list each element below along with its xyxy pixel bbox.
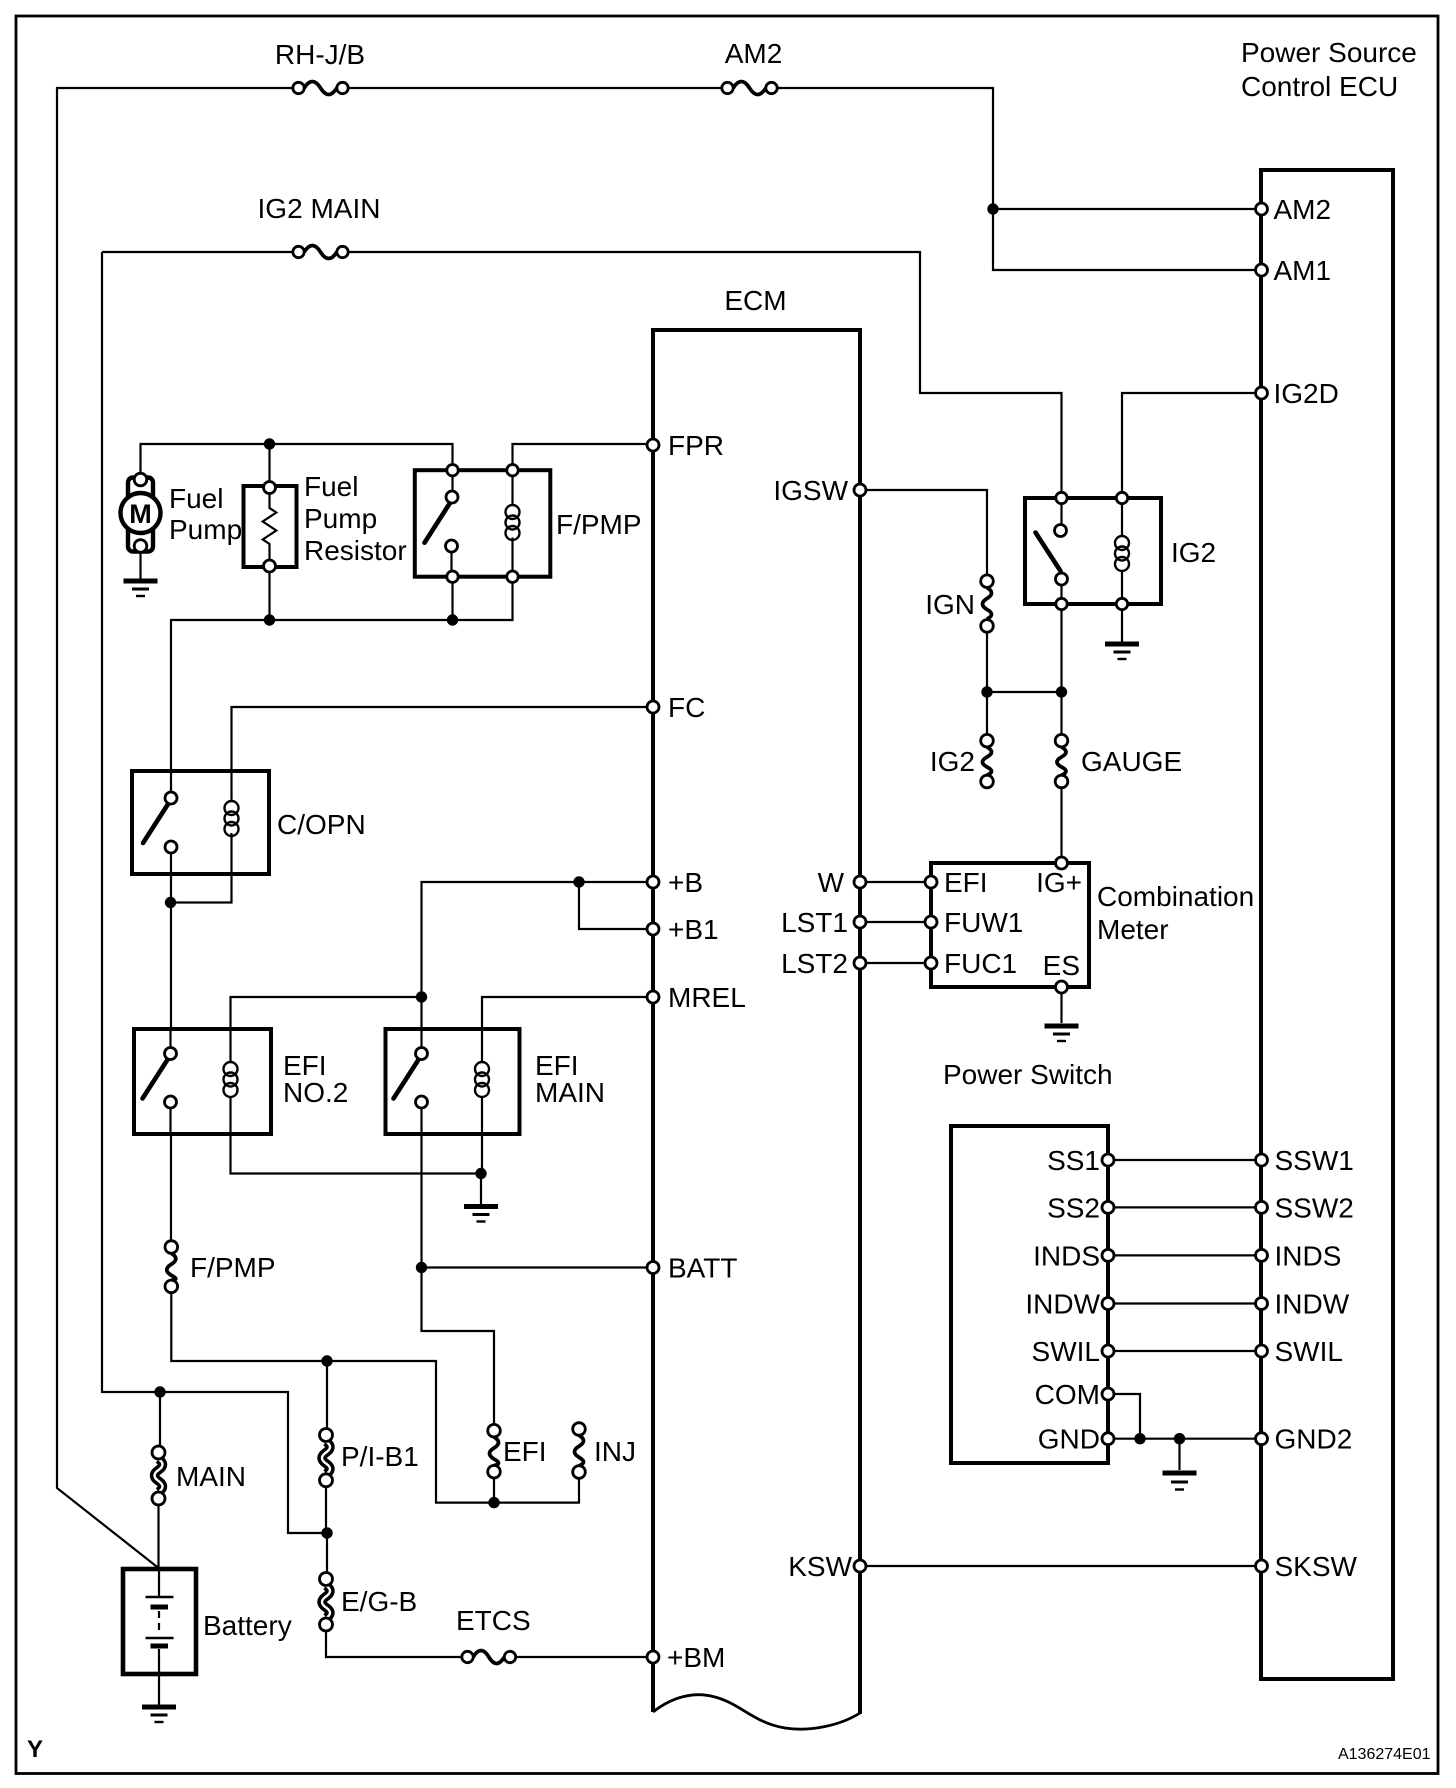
svg-text:INDW: INDW bbox=[1275, 1289, 1350, 1320]
svg-text:SWIL: SWIL bbox=[1275, 1336, 1343, 1367]
svg-text:AM2: AM2 bbox=[725, 38, 783, 69]
wire: relay coil returns to ground bbox=[231, 1134, 483, 1204]
svg-text:M: M bbox=[129, 499, 152, 529]
junction: resistor bottom bbox=[264, 614, 275, 625]
svg-text:IGN: IGN bbox=[925, 589, 975, 620]
fuse IG2 bbox=[981, 734, 994, 787]
svg-text:LST2: LST2 bbox=[781, 948, 848, 979]
ground (fuel pump) bbox=[124, 581, 158, 596]
wire: ETCS to +BM pin bbox=[517, 1656, 648, 1658]
pin SWIL (ECU) bbox=[1256, 1336, 1343, 1367]
svg-text:MREL: MREL bbox=[668, 982, 746, 1013]
relay C/OPN bbox=[132, 771, 269, 874]
pin KSW (ECM) bbox=[788, 1551, 866, 1582]
fuel pump motor M bbox=[121, 473, 161, 552]
svg-text:IGSW: IGSW bbox=[773, 475, 848, 506]
svg-text:NO.2: NO.2 bbox=[283, 1077, 348, 1108]
power source control ECU box bbox=[1261, 170, 1393, 1679]
svg-text:SSW1: SSW1 bbox=[1275, 1145, 1354, 1176]
svg-text:F/PMP: F/PMP bbox=[190, 1252, 276, 1283]
svg-text:Meter: Meter bbox=[1097, 914, 1169, 945]
junction: fuel pump resistor tap (top) bbox=[264, 438, 275, 449]
wire: MREL pin to EFI MAIN coil bbox=[482, 997, 647, 1062]
svg-text:SKSW: SKSW bbox=[1275, 1551, 1358, 1582]
pin IG+ (meter) bbox=[1036, 857, 1082, 898]
pin INDW (ECU) bbox=[1256, 1289, 1350, 1320]
junction: EFI fuse bottom bbox=[488, 1497, 499, 1508]
label EFI NO.2 bbox=[283, 1050, 348, 1108]
pin COM (power switch) bbox=[1035, 1379, 1114, 1410]
svg-text:EFI: EFI bbox=[944, 867, 988, 898]
junction: power switch ground tap bbox=[1174, 1433, 1185, 1444]
pin FUC1 (meter) bbox=[925, 948, 1017, 979]
pin IGSW (ECM) bbox=[773, 475, 866, 506]
wire: FC pin to C/OPN coil bbox=[232, 707, 648, 771]
wire: battery positive feed (left riser and top run to RH-J/B fuse) bbox=[57, 88, 292, 1568]
ground (EFI relays) bbox=[464, 1207, 498, 1222]
pin GND (power switch) bbox=[1038, 1424, 1114, 1455]
fuse INJ bbox=[573, 1423, 586, 1479]
svg-text:SS2: SS2 bbox=[1047, 1192, 1100, 1223]
svg-text:FUW1: FUW1 bbox=[944, 907, 1023, 938]
pin SWIL (power switch) bbox=[1032, 1336, 1114, 1367]
wire GND-GND2 bbox=[1114, 1438, 1256, 1440]
svg-text:COM: COM bbox=[1035, 1379, 1100, 1410]
svg-text:SS1: SS1 bbox=[1047, 1145, 1100, 1176]
svg-text:RH-J/B: RH-J/B bbox=[275, 39, 365, 70]
svg-text:IG2 MAIN: IG2 MAIN bbox=[258, 193, 381, 224]
wire: +B1 branch bbox=[579, 882, 647, 929]
svg-text:E/G-B: E/G-B bbox=[341, 1586, 417, 1617]
svg-text:Resistor: Resistor bbox=[304, 535, 407, 566]
junction: below C/OPN bbox=[165, 897, 176, 908]
svg-text:+BM: +BM bbox=[667, 1642, 725, 1673]
power switch box bbox=[951, 1126, 1108, 1463]
junction: relay switch bottom bbox=[447, 614, 458, 625]
wire: +B feed bbox=[422, 882, 648, 1048]
svg-text:INDW: INDW bbox=[1025, 1289, 1100, 1320]
svg-text:AM1: AM1 bbox=[1274, 255, 1332, 286]
wire: KSW to SKSW bbox=[866, 1565, 1256, 1567]
svg-text:Pump: Pump bbox=[304, 503, 377, 534]
svg-text:INDS: INDS bbox=[1275, 1240, 1342, 1271]
wire INDS-INDS bbox=[1114, 1254, 1256, 1256]
junction: GAUGE node bbox=[1056, 686, 1067, 697]
svg-text:FC: FC bbox=[668, 692, 705, 723]
wire: IGN fuse to junction bus bbox=[987, 610, 1062, 735]
relay IG2 bbox=[1025, 492, 1161, 609]
junction: P/I-B1 tap bbox=[321, 1355, 332, 1366]
pin SSW1 (ECU) bbox=[1256, 1145, 1354, 1176]
pin INDW (power switch) bbox=[1025, 1289, 1114, 1320]
wire: IG2 MAIN fuse feed bbox=[102, 251, 292, 253]
pin EFI (meter) bbox=[925, 867, 988, 898]
junction: BATT tap bbox=[416, 1262, 427, 1273]
pin +BM (ECM) bbox=[647, 1642, 725, 1673]
junction: coil ground node bbox=[475, 1168, 486, 1179]
svg-text:Y: Y bbox=[27, 1736, 43, 1763]
pin IG2D (ECU) bbox=[1256, 378, 1339, 409]
svg-text:EFI: EFI bbox=[503, 1436, 547, 1467]
pin FPR (ECM) bbox=[647, 430, 724, 461]
svg-text:A136274E01: A136274E01 bbox=[1338, 1746, 1431, 1763]
wire: AM2 fuse to AM2/AM1 pins of power source control ECU bbox=[777, 88, 1256, 270]
wire: W to EFI pin bbox=[866, 881, 925, 883]
pin LST1 (ECM) bbox=[781, 907, 866, 938]
wire: MAIN fusible link top lead bbox=[159, 1392, 161, 1569]
svg-text:GND2: GND2 bbox=[1275, 1424, 1353, 1455]
svg-text:FPR: FPR bbox=[668, 430, 724, 461]
wire: IG2 MAIN left leg down to P/I-B1 node bbox=[102, 252, 327, 1533]
junction: IGN node bbox=[981, 686, 992, 697]
junction: MAIN fusible link tap bbox=[154, 1386, 165, 1397]
ground (battery) bbox=[142, 1707, 176, 1722]
pin FUW1 (meter) bbox=[925, 907, 1023, 938]
pin SKSW (ECU) bbox=[1256, 1551, 1358, 1582]
wire: P/I-B1 to E/G-B bbox=[326, 1487, 327, 1573]
svg-text:GAUGE: GAUGE bbox=[1081, 746, 1182, 777]
relay EFI NO.2 bbox=[134, 1029, 271, 1134]
junction: EFI relays feed bbox=[416, 991, 427, 1002]
wire INDW-INDW bbox=[1114, 1302, 1256, 1304]
svg-text:Power Switch: Power Switch bbox=[943, 1059, 1113, 1090]
fuse AM2 bbox=[722, 82, 777, 95]
wire: ES to ground bbox=[1060, 993, 1062, 1023]
relay F/PMP bbox=[415, 465, 551, 583]
wire: P/I-B1 top lead bbox=[326, 1361, 328, 1429]
wire: fuel pump top rail to F/PMP relay switch bbox=[141, 444, 453, 473]
wire: EFI fuse bottom lead bbox=[493, 1478, 495, 1503]
wire: IG2 relay coil to ground bbox=[1121, 610, 1123, 642]
svg-text:Pump: Pump bbox=[169, 514, 242, 545]
wire COM jumper bbox=[1114, 1394, 1140, 1439]
wire: IG2 MAIN fuse to IG2 relay switch bbox=[349, 252, 1062, 492]
svg-text:GND: GND bbox=[1038, 1424, 1100, 1455]
svg-text:Power Source: Power Source bbox=[1241, 37, 1417, 68]
wire: LST1 to FUW1 pin bbox=[866, 921, 925, 923]
pin INDS (power switch) bbox=[1033, 1240, 1114, 1271]
fuse RH-J/B bbox=[293, 82, 348, 95]
wire SS1-SSW1 bbox=[1114, 1159, 1256, 1161]
pin SSW2 (ECU) bbox=[1256, 1192, 1354, 1223]
pin +B (ECM) bbox=[647, 867, 703, 898]
svg-text:INJ: INJ bbox=[594, 1436, 636, 1467]
junction: AM2 branch bbox=[987, 203, 998, 214]
pin SS2 (power switch) bbox=[1047, 1192, 1114, 1223]
pin FC (ECM) bbox=[647, 692, 705, 723]
pin ES (meter) bbox=[1043, 950, 1080, 993]
svg-text:BATT: BATT bbox=[668, 1253, 737, 1284]
label EFI MAIN bbox=[535, 1050, 605, 1108]
svg-text:W: W bbox=[818, 867, 845, 898]
svg-text:F/PMP: F/PMP bbox=[556, 509, 642, 540]
svg-text:SSW2: SSW2 bbox=[1275, 1192, 1354, 1223]
wire: F/PMP fuse to EFI/INJ fuse bus bbox=[171, 1293, 579, 1503]
pin MREL (ECM) bbox=[647, 982, 746, 1013]
wire: resistor bottom lead bbox=[268, 572, 270, 620]
fusible link E/G-B bbox=[320, 1573, 333, 1632]
svg-text:Fuel: Fuel bbox=[169, 483, 223, 514]
combination meter box bbox=[931, 863, 1089, 987]
wire: IGSW pin to IGN fuse bbox=[866, 490, 987, 575]
svg-text:ETCS: ETCS bbox=[456, 1605, 531, 1636]
label Combination Meter bbox=[1097, 881, 1254, 945]
pin SS1 (power switch) bbox=[1047, 1145, 1114, 1176]
svg-text:IG2: IG2 bbox=[1171, 537, 1216, 568]
wire: power switch ground lead bbox=[1178, 1439, 1180, 1470]
svg-text:KSW: KSW bbox=[788, 1551, 852, 1582]
wire: LST2 to FUC1 pin bbox=[866, 962, 925, 964]
wire: C/OPN outputs joined below bbox=[171, 874, 232, 1029]
fuse ETCS bbox=[462, 1651, 516, 1664]
wire: EFI NO.2 coil feed bbox=[231, 997, 422, 1062]
battery bbox=[123, 1569, 196, 1705]
svg-text:Fuel: Fuel bbox=[304, 471, 358, 502]
fuse IGN bbox=[981, 575, 994, 632]
wire: BATT pin bbox=[422, 1266, 648, 1268]
junction: COM-GND bbox=[1134, 1433, 1145, 1444]
svg-text:+B: +B bbox=[668, 867, 703, 898]
junction: +B1 tap bbox=[573, 876, 584, 887]
svg-text:MAIN: MAIN bbox=[176, 1461, 246, 1492]
svg-text:P/I-B1: P/I-B1 bbox=[341, 1441, 419, 1472]
ground (combination meter) bbox=[1045, 1026, 1079, 1041]
wire: E/G-B to ETCS fuse bbox=[326, 1631, 461, 1657]
wire: EFI MAIN switch down to BATT node and EFI fuse bbox=[422, 1134, 495, 1424]
pin INDS (ECU) bbox=[1256, 1240, 1342, 1271]
wire: IG2D pin to IG2 relay coil bbox=[1122, 393, 1256, 492]
svg-text:MAIN: MAIN bbox=[535, 1077, 605, 1108]
pin W (ECM) bbox=[818, 867, 866, 898]
pin AM1 (ECU) bbox=[1256, 255, 1332, 286]
svg-text:LST1: LST1 bbox=[781, 907, 848, 938]
label Fuel Pump bbox=[169, 483, 242, 545]
pin +B1 (ECM) bbox=[647, 914, 719, 945]
svg-text:Control ECU: Control ECU bbox=[1241, 71, 1398, 102]
svg-text:IG2D: IG2D bbox=[1274, 378, 1339, 409]
svg-text:Combination: Combination bbox=[1097, 881, 1254, 912]
svg-text:ES: ES bbox=[1043, 950, 1080, 981]
pin BATT (ECM) bbox=[647, 1253, 737, 1284]
svg-text:Battery: Battery bbox=[203, 1610, 292, 1641]
svg-text:INDS: INDS bbox=[1033, 1240, 1100, 1271]
fuse EFI bbox=[488, 1424, 501, 1478]
wire: EFI NO.2 switch to F/PMP fusible link bbox=[170, 1134, 172, 1241]
svg-text:+B1: +B1 bbox=[668, 914, 719, 945]
svg-text:IG2: IG2 bbox=[930, 746, 975, 777]
pin LST2 (ECM) bbox=[781, 948, 866, 979]
pin GND2 (ECU) bbox=[1256, 1424, 1353, 1455]
label Fuel Pump Resistor bbox=[304, 471, 407, 566]
ground (IG2 relay) bbox=[1105, 644, 1139, 659]
wire: F/PMP relay coil to FPR pin bbox=[513, 444, 648, 465]
wire: fuel pump to ground bbox=[139, 552, 141, 579]
svg-text:AM2: AM2 bbox=[1274, 194, 1332, 225]
svg-text:FUC1: FUC1 bbox=[944, 948, 1017, 979]
wire SS2-SSW2 bbox=[1114, 1206, 1256, 1208]
wire: GAUGE fuse to combination meter IG+ bbox=[1060, 788, 1062, 857]
pin AM2 (ECU) bbox=[1256, 194, 1332, 225]
wire: RH-J/B fuse to AM2 fuse bbox=[348, 87, 722, 89]
fusible link MAIN bbox=[152, 1446, 165, 1505]
ground (power switch) bbox=[1163, 1473, 1197, 1490]
ECM box bbox=[653, 330, 860, 1729]
fuse F/PMP bbox=[165, 1241, 178, 1293]
fuse IG2 MAIN bbox=[293, 246, 348, 259]
junction: E/G-B node bbox=[321, 1527, 332, 1538]
svg-text:ECM: ECM bbox=[724, 285, 786, 316]
wire: pump circuit bottom bus bbox=[171, 582, 513, 771]
fuel pump resistor bbox=[244, 482, 297, 573]
svg-text:C/OPN: C/OPN bbox=[277, 809, 366, 840]
wire SWIL-SWIL bbox=[1114, 1350, 1256, 1352]
svg-text:SWIL: SWIL bbox=[1032, 1336, 1100, 1367]
relay EFI MAIN bbox=[386, 1029, 520, 1134]
wire: resistor top lead bbox=[268, 444, 270, 482]
fusible link P/I-B1 bbox=[320, 1429, 333, 1487]
svg-text:IG+: IG+ bbox=[1036, 867, 1082, 898]
fuse GAUGE bbox=[1055, 734, 1068, 787]
